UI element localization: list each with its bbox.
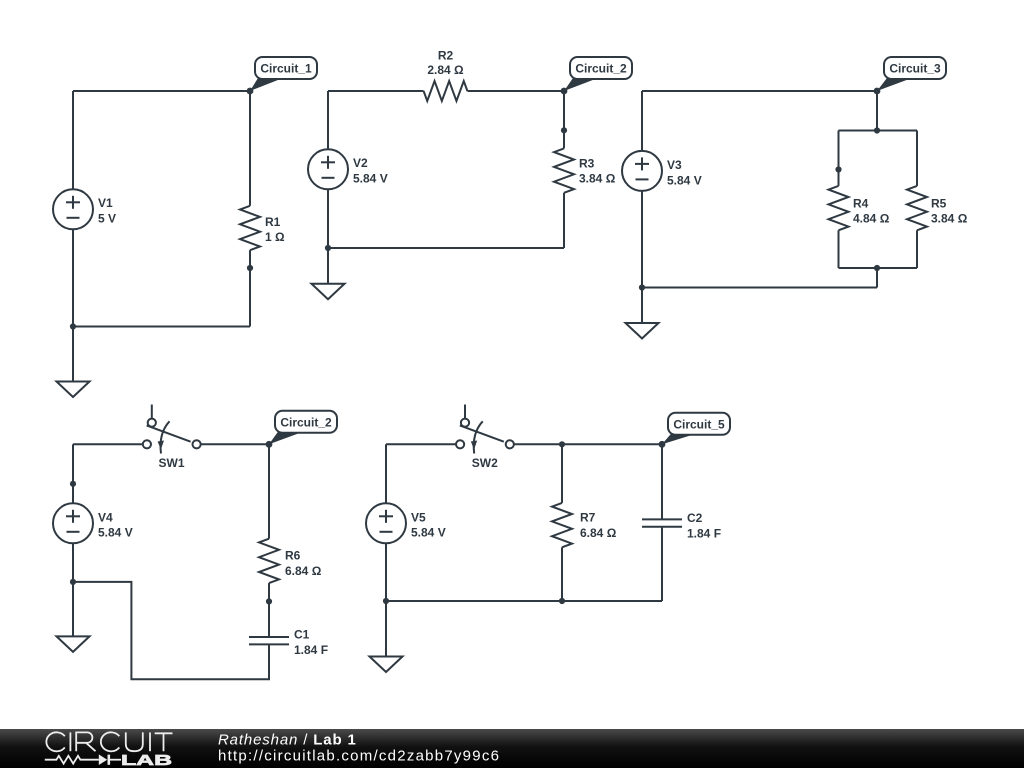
label R4 4.84 ohm [853, 197, 890, 226]
label V4 5.84 V [98, 510, 133, 539]
node Circuit_2 attach dot [561, 88, 568, 95]
voltage source V2 [308, 149, 348, 189]
svg-text:R6: R6 [285, 549, 301, 563]
svg-text:V1: V1 [98, 196, 113, 210]
wire circuit5 left [385, 444, 387, 503]
svg-text:R1: R1 [265, 215, 281, 229]
junction node V2 bottom [325, 245, 331, 251]
ground circuit4 [57, 582, 90, 652]
capacitor C2 [642, 519, 682, 526]
svg-text:4.84 Ω: 4.84 Ω [853, 212, 890, 226]
resistor R6 [259, 539, 279, 583]
svg-text:6.84 Ω: 6.84 Ω [285, 564, 322, 578]
wire circuit4 top left [73, 443, 143, 445]
ground circuit2 [312, 248, 345, 299]
wire V3 bottom [641, 191, 643, 288]
svg-text:C2: C2 [687, 511, 703, 525]
ground circuit3 [626, 288, 659, 339]
voltage source V5 [366, 503, 406, 543]
capacitor C1 [249, 637, 289, 644]
svg-text:R4: R4 [853, 197, 869, 211]
svg-text:http://circuitlab.com/cd2zabb7: http://circuitlab.com/cd2zabb7y99c6 [218, 748, 500, 765]
wire circuit5 top left [386, 443, 456, 445]
wire R5 top [916, 131, 918, 186]
wire circuit5 left lower [385, 543, 387, 601]
wire parallel block down [876, 268, 878, 288]
voltage source V1 [53, 189, 93, 229]
resistor R1 [240, 206, 260, 250]
ground circuit1 [57, 327, 90, 398]
svg-text:5.84 V: 5.84 V [667, 173, 702, 187]
label SW1 [159, 456, 185, 470]
ground circuit5 [370, 601, 403, 672]
wire R4 bottom [838, 230, 840, 268]
wire circuit2 top right segment [467, 90, 564, 92]
resistor R5 [907, 186, 927, 230]
svg-text:SW2: SW2 [472, 456, 498, 470]
svg-text:3.84 Ω: 3.84 Ω [579, 172, 616, 186]
switch SW2 [456, 419, 514, 454]
wire R3 bottom [563, 193, 565, 248]
svg-text:Circuit_1: Circuit_1 [260, 62, 312, 76]
node label Circuit_2 (bottom) [269, 411, 337, 445]
wire circuit1 right upper [249, 91, 251, 206]
label R3 3.84 ohm [579, 157, 616, 186]
node label Circuit_5 [662, 413, 730, 445]
svg-text:2.84 Ω: 2.84 Ω [427, 63, 464, 77]
wire circuit2 bottom [328, 247, 564, 249]
junction node V3 bottom [639, 284, 645, 290]
wire parallel bottom edge [839, 267, 918, 269]
junction node V5 bottom [383, 598, 389, 604]
wire V2 bottom [327, 189, 329, 248]
junction node circuit1 bottom-left [70, 323, 76, 329]
wire circuit3 top [642, 90, 877, 92]
svg-text:Circuit_3: Circuit_3 [889, 62, 941, 76]
resistor R2 [424, 81, 468, 101]
svg-text:R2: R2 [438, 49, 454, 63]
label R2 2.84 ohm [427, 49, 464, 78]
node label Circuit_3 [877, 57, 946, 91]
junction node below R6 [266, 598, 272, 604]
node label Circuit_2 [564, 57, 632, 91]
wire circuit1 bottom [73, 326, 250, 328]
wire R4 top [838, 131, 840, 186]
footer bar [0, 729, 1024, 768]
wire R7 top [561, 444, 563, 503]
wire circuit1 left upper [72, 91, 74, 189]
switch SW1 [143, 419, 201, 454]
wire circuit1 left lower [72, 229, 74, 326]
svg-text:1.84 F: 1.84 F [294, 643, 328, 657]
voltage source V4 [53, 503, 93, 543]
wire C2 top [661, 444, 663, 519]
label V2 5.84 V [353, 156, 388, 186]
node Circuit_1 attach dot [247, 88, 254, 95]
svg-text:6.84 Ω: 6.84 Ω [580, 526, 617, 540]
svg-text:V3: V3 [667, 158, 682, 172]
node Circuit_2b attach dot [266, 441, 273, 448]
label R1 1 ohm [265, 215, 285, 244]
svg-text:C1: C1 [294, 628, 310, 642]
svg-text:Circuit_5: Circuit_5 [673, 417, 725, 431]
svg-text:R7: R7 [580, 511, 596, 525]
svg-text:Circuit_2: Circuit_2 [575, 62, 627, 76]
wire R6 to C1 [268, 583, 270, 637]
wire R7 bottom [561, 547, 563, 601]
CircuitLab logo wordmark CIRCUIT [46, 732, 172, 751]
junction node parallel bottom [874, 265, 880, 271]
CircuitLab logo resistor-diode glyph [45, 754, 121, 765]
footer url [218, 748, 500, 765]
label SW2 [472, 456, 498, 470]
svg-text:3.84 Ω: 3.84 Ω [931, 212, 968, 226]
svg-text:V4: V4 [98, 510, 113, 524]
svg-text:1 Ω: 1 Ω [265, 230, 285, 244]
svg-text:5.84 V: 5.84 V [98, 526, 133, 540]
svg-text:Ratheshan / Lab 1: Ratheshan / Lab 1 [218, 732, 357, 749]
label C1 1.84 F [294, 628, 328, 658]
switch SW2 top stub wire [464, 405, 466, 419]
node label Circuit_1 [250, 57, 317, 91]
junction node above R3 [561, 127, 567, 133]
node Circuit_5 attach dot [659, 441, 666, 448]
wire circuit2 top left segment [328, 90, 424, 92]
wire circuit4 left lower [72, 543, 74, 582]
junction node below R1 [247, 265, 253, 271]
wire circuit4 top right [200, 443, 269, 445]
label C2 1.84 F [687, 511, 721, 541]
wire circuit1 right lower [249, 250, 251, 326]
wire circuit4 return path [73, 582, 269, 679]
svg-text:LAB: LAB [121, 753, 172, 768]
wire R3 top [563, 91, 565, 148]
junction node R7 bottom [559, 598, 565, 604]
junction node above R7 [559, 441, 565, 447]
label V1 5 V [98, 196, 116, 225]
wire R5 bottom [916, 230, 918, 268]
switch SW1 top stub wire [151, 405, 153, 419]
wire C2 bottom [661, 527, 663, 601]
svg-text:R3: R3 [579, 157, 595, 171]
wire R6 top [268, 444, 270, 538]
label R7 6.84 ohm [580, 511, 617, 541]
resistor R3 [554, 148, 574, 192]
label R5 3.84 ohm [931, 197, 968, 226]
wire circuit5 top right [514, 443, 662, 445]
svg-text:1.84 F: 1.84 F [687, 527, 721, 541]
svg-text:5 V: 5 V [98, 212, 116, 226]
junction node above R4 [835, 166, 841, 172]
svg-text:V2: V2 [353, 156, 368, 170]
wire parallel top edge [839, 130, 918, 132]
wire circuit5 bottom [386, 600, 662, 602]
svg-text:Circuit_2: Circuit_2 [280, 415, 332, 429]
label V5 5.84 V [411, 510, 446, 539]
resistor R4 [829, 186, 849, 230]
voltage source V3 [622, 151, 662, 191]
wire circuit4 left upper [72, 444, 74, 503]
wire V2 top [327, 91, 329, 149]
label R6 6.84 ohm [285, 549, 322, 579]
wire circuit1 top [73, 90, 250, 92]
svg-text:5.84 V: 5.84 V [411, 526, 446, 540]
svg-text:SW1: SW1 [159, 456, 185, 470]
svg-text:5.84 V: 5.84 V [353, 172, 388, 186]
wire V3 top [641, 91, 643, 151]
resistor R7 [552, 503, 572, 547]
node Circuit_3 attach dot [874, 88, 881, 95]
junction node above V4 [70, 481, 76, 487]
footer title Ratheshan / Lab 1 [218, 732, 357, 749]
CircuitLab logo wordmark LAB [121, 753, 172, 768]
junction node V4 bottom [70, 579, 76, 585]
wire circuit3 vertical to parallel block [876, 91, 878, 131]
svg-text:R5: R5 [931, 197, 947, 211]
label V3 5.84 V [667, 158, 702, 187]
wire circuit3 bottom [642, 287, 877, 289]
junction node parallel top [874, 127, 880, 133]
svg-text:V5: V5 [411, 510, 426, 524]
